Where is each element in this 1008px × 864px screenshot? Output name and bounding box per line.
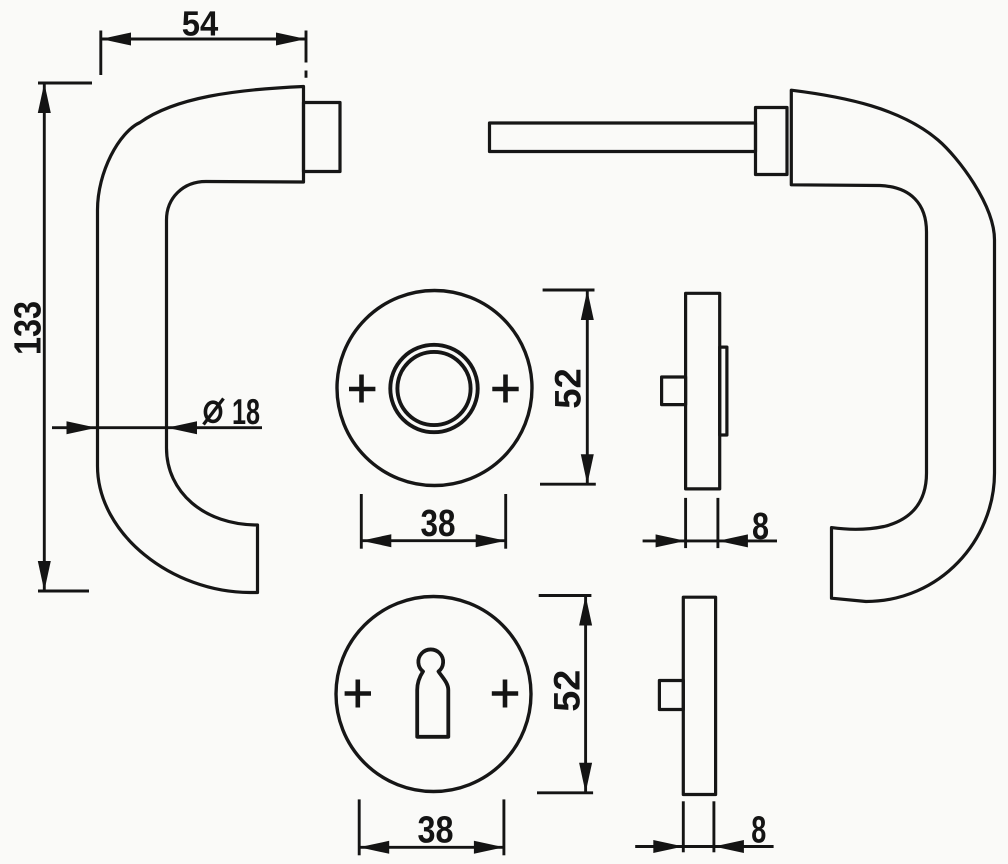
keyhole bbox=[417, 649, 448, 736]
dim 52 top: lower tick bbox=[540, 483, 596, 486]
left handle hub (square spindle boss) bbox=[304, 103, 341, 172]
right lever handle outline bbox=[791, 90, 994, 601]
svg-text:18: 18 bbox=[232, 391, 260, 432]
dim 8 top: right extension line bbox=[716, 498, 719, 548]
dim 8 top: left arrow (points right) bbox=[656, 534, 686, 547]
dim 38 bottom: right arrow bbox=[474, 841, 504, 854]
dim 54: right arrow bbox=[276, 33, 306, 46]
dim 8 bottom: right arrow (points left) bbox=[714, 840, 744, 853]
dim 38 bottom: right extension line bbox=[502, 799, 505, 855]
top side view: rosette profile plate bbox=[686, 293, 720, 489]
svg-text:8: 8 bbox=[751, 809, 766, 851]
dim 52 bottom: down arrow bbox=[579, 763, 592, 793]
dim 52 top: down arrow bbox=[581, 454, 594, 484]
dim 52 top: dimension line bbox=[586, 291, 589, 483]
dim 38 top: right arrow bbox=[476, 534, 506, 547]
top rosette bore ring outer bbox=[390, 345, 477, 432]
dim 52 bottom: dimension line bbox=[584, 597, 587, 792]
screw-hole plus marks bbox=[345, 375, 519, 708]
dim 52 top: up arrow bbox=[581, 290, 594, 320]
top rosette bore ring inner bbox=[397, 352, 470, 425]
dim 52 top: upper tick bbox=[543, 289, 595, 292]
dim 38 top: left extension line bbox=[360, 494, 363, 549]
dim 54: extension line left bbox=[99, 31, 102, 76]
svg-text:38: 38 bbox=[418, 810, 454, 852]
dim 8 top: left extension line bbox=[684, 498, 687, 548]
left lever handle outline bbox=[98, 87, 304, 593]
svg-text:38: 38 bbox=[421, 503, 456, 545]
top side view: fixing nub bbox=[662, 377, 686, 405]
dim 133: dimension line bbox=[43, 84, 46, 590]
plus mark top rosette left bbox=[349, 375, 375, 403]
dim ø18: leader line bbox=[52, 426, 262, 429]
dim 133: top arrow bbox=[38, 83, 51, 113]
dim 133: bottom arrow bbox=[38, 561, 51, 591]
dim 8 bottom: dimension line bbox=[635, 845, 773, 848]
dim 133: bottom tick bbox=[38, 590, 89, 593]
dim 54: dimension line bbox=[101, 38, 306, 41]
dim 38 bottom: dimension line bbox=[360, 846, 504, 849]
dim ø18: right arrow (points left at grip) bbox=[167, 421, 197, 434]
dim 54: extension line right (dashed) bbox=[305, 31, 308, 78]
dim 8 top: right arrow (points left) bbox=[718, 534, 748, 547]
plus mark bottom rosette left bbox=[345, 680, 371, 708]
plus mark bottom rosette right bbox=[492, 680, 518, 708]
dim 8 top: dimension line bbox=[643, 539, 777, 542]
bottom side view: escutcheon profile plate bbox=[683, 597, 715, 794]
svg-text:133: 133 bbox=[8, 301, 50, 355]
bottom side view: fixing nub bbox=[659, 681, 683, 710]
dim 38 top: dimension line bbox=[362, 539, 505, 542]
spindle (square rod) bbox=[490, 123, 756, 152]
dim ø18: left arrow (points right at grip) bbox=[67, 421, 97, 434]
dim 8 bottom: right extension line bbox=[712, 801, 715, 852]
svg-text:52: 52 bbox=[548, 368, 589, 409]
dim 52 bottom: up arrow bbox=[579, 596, 592, 626]
bottom rosette (escutcheon) outer circle bbox=[336, 597, 531, 792]
dim 52 bottom: upper tick bbox=[539, 594, 592, 597]
top rosette outer circle bbox=[337, 291, 532, 486]
top side view: bore collar bbox=[720, 347, 727, 435]
dim 38 top: left arrow bbox=[361, 534, 391, 547]
dim 52 bottom: lower tick bbox=[537, 791, 593, 794]
right handle hub bbox=[756, 108, 788, 175]
dim 38 bottom: left arrow bbox=[359, 841, 389, 854]
dim 38 bottom: left extension line bbox=[358, 799, 361, 855]
label ø18 bbox=[204, 399, 224, 425]
dim 38 top: right extension line bbox=[504, 494, 507, 549]
dim 8 bottom: left extension line bbox=[682, 801, 685, 852]
svg-text:54: 54 bbox=[182, 5, 219, 44]
dim 8 bottom: left arrow (points right) bbox=[653, 840, 683, 853]
svg-text:8: 8 bbox=[752, 506, 769, 548]
dim 54: left arrow bbox=[101, 33, 131, 46]
plus mark top rosette right bbox=[492, 375, 518, 403]
svg-text:52: 52 bbox=[547, 670, 588, 712]
dim 133: top tick bbox=[38, 82, 92, 85]
